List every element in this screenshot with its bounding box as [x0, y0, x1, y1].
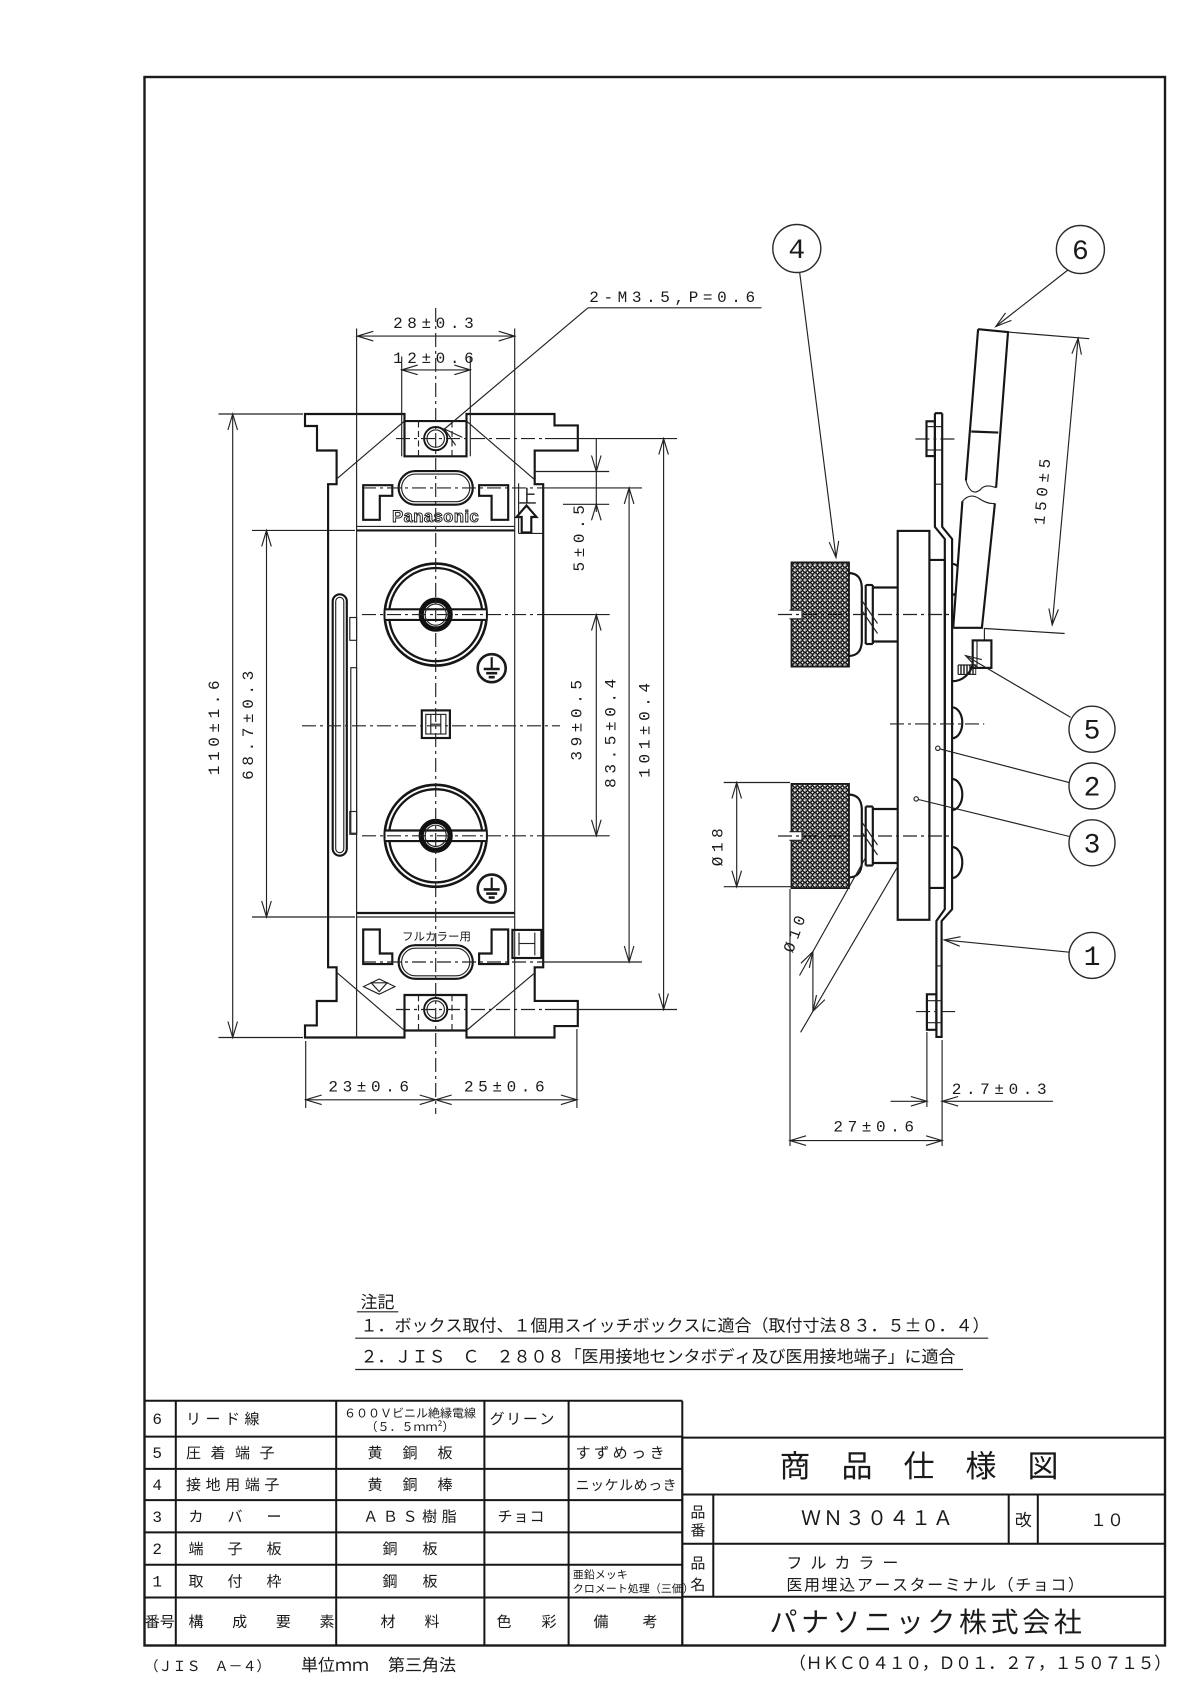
label 品番: [692, 1506, 705, 1519]
front view: mounting frame outline (取付枠): [305, 414, 578, 1038]
front view: horizontal center line: [302, 725, 560, 727]
front view: left long slot: [333, 594, 347, 855]
side view: crimp terminal curled tab with hatch: [952, 664, 972, 681]
side view: center lines: [915, 438, 956, 440]
front view: 上 orientation mark: [519, 488, 536, 504]
footer JIS A-4 info: [154, 1659, 261, 1672]
svg-text:4: 4: [788, 236, 805, 267]
leader to balloon 1 (mounting frame): [944, 940, 1069, 952]
front view: right strip box lines: [518, 483, 520, 533]
side view: lead wire upper segment: [966, 329, 1008, 492]
svg-text:2-M3.5,P=0.6: 2-M3.5,P=0.6: [589, 289, 759, 307]
footer drawing code: [801, 1654, 1160, 1670]
svg-text:27±0.6: 27±0.6: [833, 1119, 918, 1137]
front view: claw top-left: [363, 485, 392, 520]
balloon 6: [1056, 226, 1104, 274]
front view: bottom mounting oval slot: [399, 945, 473, 979]
side view: lead wire lower segment: [953, 496, 995, 628]
front view: left edge notch upper: [350, 618, 357, 641]
balloon 2: [1069, 763, 1115, 809]
note 2 JIS C 2808: [364, 1348, 955, 1364]
title 商品仕様図: [782, 1451, 809, 1480]
svg-text:23±0.6: 23±0.6: [328, 1079, 413, 1097]
front view: top screw pocket shelf: [405, 420, 467, 422]
svg-text:68.7±0.3: 68.7±0.3: [240, 666, 258, 780]
dimension 150±5 (lead length): [1008, 332, 1089, 339]
front view: H window symbol bottom right: [512, 930, 541, 958]
front view: earth mark upper: [478, 654, 506, 682]
label 改: [1016, 1512, 1031, 1528]
front view: top mounting oval slot: [399, 471, 473, 505]
side view: thumbscrew upper (接地用端子): [792, 562, 850, 666]
front view: top oval center line: [362, 487, 545, 489]
svg-text:25±0.6: 25±0.6: [464, 1079, 549, 1097]
balloon 4: [773, 225, 821, 273]
front view: quality diamond mark: [364, 979, 395, 994]
side view: contact bumps on terminal plate: [952, 564, 962, 595]
front view: bottom screw center line: [396, 1009, 545, 1011]
dimension Ø10 (shank dia, oblique): [800, 857, 866, 975]
note 1 box mounting: [365, 1317, 978, 1333]
svg-text:1: 1: [1084, 943, 1101, 974]
front view: earth mark lower: [478, 875, 506, 903]
leader to balloon 4 (thumbscrew): [800, 273, 836, 558]
front view: bottom pocket hidden thread lines: [418, 1024, 420, 1031]
svg-text:39±0.5: 39±0.5: [569, 675, 587, 760]
parts table 色彩 column: [490, 1412, 553, 1426]
svg-text:83.5±0.4: 83.5±0.4: [603, 674, 621, 788]
sheet border frame: [145, 77, 1166, 1646]
side view: mounting frame strip (取付枠 edge): [935, 413, 952, 1037]
svg-text:5±0.5: 5±0.5: [571, 500, 589, 571]
parts table 材料 column: [347, 1407, 476, 1418]
front view: top screw center line: [396, 438, 545, 440]
side view: top mounting tab: [927, 421, 935, 456]
leader to balloon 6 (lead wire): [996, 270, 1068, 327]
front view: フルカラー用 label: [404, 931, 470, 941]
svg-text:5: 5: [152, 1445, 166, 1463]
front view: top pocket hidden thread lines: [418, 421, 420, 428]
front view: left edge notch lower: [350, 812, 357, 835]
side view: crimp terminal (圧着端子): [973, 640, 992, 668]
front view: claw bottom-right: [479, 930, 508, 965]
front view: up arrow symbol: [517, 506, 537, 533]
svg-text:101±0.4: 101±0.4: [637, 678, 655, 777]
side view: bare conductor: [983, 628, 985, 641]
leader to balloon 3 (cover): [914, 797, 918, 801]
balloon 1: [1069, 932, 1115, 978]
front view: cover top edge double line: [357, 525, 515, 527]
leader to balloon 2 (terminal plate): [936, 746, 940, 750]
side view: cover block (カバー): [898, 531, 930, 920]
notes heading 注記: [361, 1294, 394, 1310]
side view: wire break upper: [966, 481, 996, 493]
front view: center square window symbol: [422, 710, 450, 738]
side view: bottom mounting tab: [927, 994, 937, 1030]
svg-text:5: 5: [1084, 717, 1101, 748]
front view: bottom screw pocket shelf: [405, 1029, 467, 1031]
front view: cover bottom edge double line: [357, 912, 515, 914]
parts table grid: [145, 1401, 683, 1646]
side view: wire break lower: [962, 496, 995, 504]
side view: terminal plate (端子板): [929, 560, 944, 888]
part number WN3041A: [802, 1510, 950, 1525]
svg-text:110±1.6: 110±1.6: [206, 676, 224, 775]
front view: terminal center lines: [362, 614, 545, 616]
parts table 備考 column: [577, 1446, 662, 1459]
svg-text:6: 6: [1072, 237, 1089, 268]
front view: bottom oval center line: [362, 961, 545, 963]
side view: thumbscrew lower (接地用端子): [792, 784, 850, 888]
front view: terminal screw lower: [385, 785, 487, 887]
front view: frame corner diagonals: [338, 421, 405, 478]
parts table 構成要素 column: [189, 1412, 259, 1426]
svg-text:3: 3: [1084, 830, 1101, 861]
parts table header 番号: [145, 1615, 174, 1629]
svg-text:2.7±0.3: 2.7±0.3: [952, 1081, 1051, 1099]
svg-text:2: 2: [152, 1541, 166, 1559]
product name フルカラー: [789, 1556, 897, 1569]
front view: vertical center line: [435, 308, 437, 1114]
label 品名: [692, 1557, 705, 1570]
svg-text:28±0.3: 28±0.3: [393, 315, 478, 333]
title block grid: [682, 1438, 1165, 1646]
svg-text:4: 4: [152, 1477, 166, 1495]
front view: terminal screw upper: [385, 564, 487, 666]
front view: top mounting screw hole M3.5: [424, 427, 447, 450]
svg-text:Ø18: Ø18: [709, 824, 727, 867]
front view: bottom mounting screw hole M3.5: [424, 998, 447, 1021]
front view: inner frame vertical lines (28mm aperture edges): [356, 329, 358, 1038]
company パナソニック株式会社: [771, 1608, 1081, 1634]
svg-text:2: 2: [1084, 774, 1101, 805]
side view: strip tick marks: [927, 449, 943, 451]
front view: claw bottom-left: [363, 930, 392, 965]
product name 医用埋込アースターミナル（チョコ）: [788, 1577, 1073, 1592]
revision 10: [1094, 1513, 1120, 1526]
balloon 3: [1069, 820, 1115, 866]
front view: claw top-right: [479, 485, 508, 520]
front view: left edge thin rib: [351, 668, 357, 834]
svg-text:12±0.6: 12±0.6: [393, 350, 478, 368]
svg-text:6: 6: [152, 1411, 166, 1429]
balloon 5: [1069, 706, 1115, 752]
svg-text:3: 3: [152, 1509, 166, 1527]
leader to balloon 5 (crimp terminal): [966, 656, 1071, 718]
svg-text:1: 1: [152, 1574, 166, 1592]
